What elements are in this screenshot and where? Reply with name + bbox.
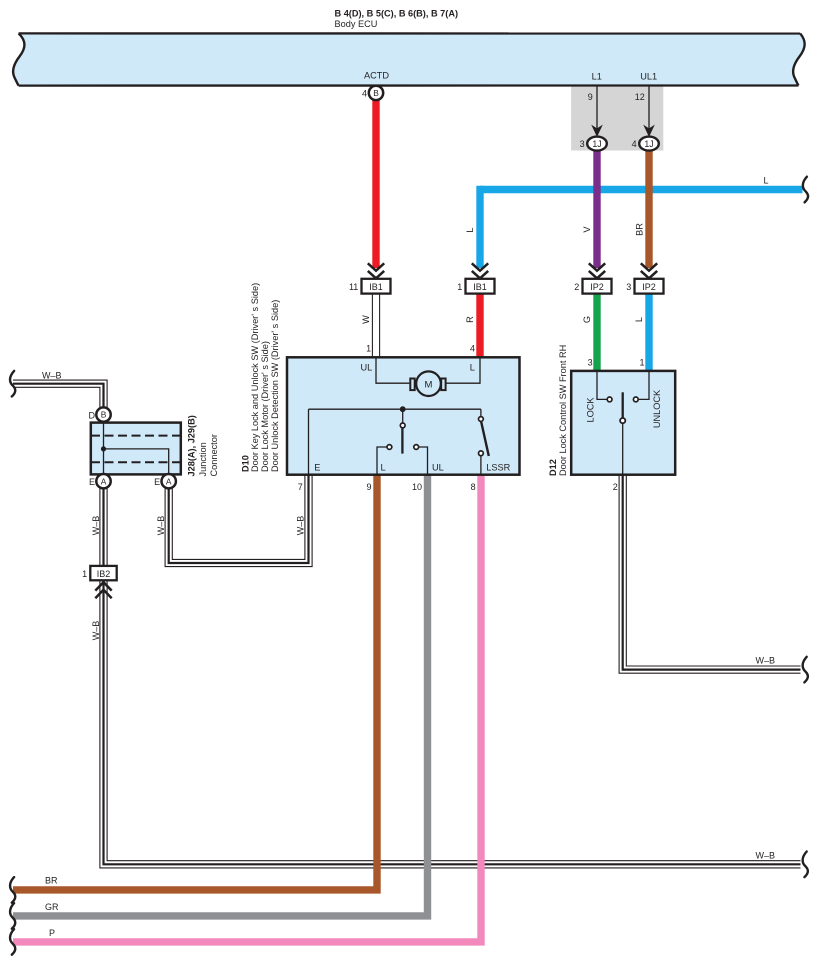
svg-text:1: 1 <box>82 569 87 579</box>
svg-text:Door Unlock Detection SW (Driv: Door Unlock Detection SW (Driver' s Side… <box>270 300 280 472</box>
svg-text:D12: D12 <box>548 459 558 476</box>
svg-text:IB1: IB1 <box>473 282 487 292</box>
svg-text:W–B: W–B <box>91 516 101 536</box>
svg-text:Door Lock Motor (Driver' s Sid: Door Lock Motor (Driver' s Side) <box>260 341 270 472</box>
svg-text:IB2: IB2 <box>97 569 111 579</box>
svg-text:L: L <box>634 317 644 322</box>
svg-text:GR: GR <box>45 902 59 912</box>
svg-text:2: 2 <box>574 282 579 292</box>
svg-text:W–B: W–B <box>42 370 62 380</box>
svg-text:7: 7 <box>298 482 303 492</box>
svg-text:L: L <box>470 363 475 373</box>
svg-text:V: V <box>582 226 592 233</box>
svg-text:BR: BR <box>635 223 645 236</box>
svg-text:L1: L1 <box>592 71 602 81</box>
svg-text:3: 3 <box>626 282 631 292</box>
svg-text:3: 3 <box>580 139 585 149</box>
svg-text:LOCK: LOCK <box>586 397 596 423</box>
svg-text:11: 11 <box>349 282 358 292</box>
svg-text:L: L <box>764 175 769 185</box>
svg-text:D10: D10 <box>240 455 250 472</box>
svg-text:Junction: Junction <box>198 442 208 476</box>
svg-text:Door Lock Control SW Front RH: Door Lock Control SW Front RH <box>558 345 568 476</box>
svg-text:12: 12 <box>635 92 645 102</box>
svg-text:W–B: W–B <box>756 656 776 666</box>
svg-text:UNLOCK: UNLOCK <box>652 389 662 428</box>
svg-text:L: L <box>465 227 475 232</box>
svg-text:2: 2 <box>613 482 618 492</box>
svg-text:3: 3 <box>588 358 593 368</box>
svg-text:A: A <box>166 476 172 486</box>
svg-text:9: 9 <box>588 92 593 102</box>
svg-text:IB1: IB1 <box>369 282 383 292</box>
svg-text:B 4(D), B 5(C), B 6(B), B 7(A): B 4(D), B 5(C), B 6(B), B 7(A) <box>335 9 459 19</box>
svg-text:W–B: W–B <box>156 516 166 536</box>
svg-text:J28(A), J29(B): J28(A), J29(B) <box>187 415 197 476</box>
svg-text:P: P <box>49 928 55 938</box>
svg-text:9: 9 <box>366 482 371 492</box>
svg-text:10: 10 <box>412 482 422 492</box>
svg-text:W–B: W–B <box>756 850 776 860</box>
svg-text:BR: BR <box>45 876 58 886</box>
svg-text:1: 1 <box>366 343 371 353</box>
svg-text:M: M <box>425 380 433 391</box>
svg-text:Connector: Connector <box>209 434 219 476</box>
svg-text:B: B <box>373 88 379 98</box>
svg-text:UL: UL <box>432 462 444 472</box>
svg-text:Body ECU: Body ECU <box>335 19 378 29</box>
svg-text:8: 8 <box>471 482 476 492</box>
svg-text:4: 4 <box>470 343 475 353</box>
svg-text:D: D <box>89 410 96 420</box>
svg-text:ACTD: ACTD <box>364 70 389 80</box>
svg-text:L: L <box>380 462 385 472</box>
svg-text:B: B <box>101 410 107 420</box>
svg-text:4: 4 <box>362 88 367 98</box>
svg-text:E: E <box>89 477 95 487</box>
svg-text:W: W <box>361 315 371 324</box>
svg-text:IP2: IP2 <box>642 282 656 292</box>
svg-text:1J: 1J <box>592 139 601 149</box>
svg-text:UL1: UL1 <box>640 71 657 81</box>
svg-text:W–B: W–B <box>91 621 101 641</box>
svg-text:1: 1 <box>639 358 644 368</box>
svg-text:LSSR: LSSR <box>486 462 510 472</box>
svg-text:A: A <box>101 476 107 486</box>
svg-text:E: E <box>154 477 160 487</box>
svg-text:1: 1 <box>457 282 462 292</box>
svg-text:R: R <box>465 316 475 323</box>
svg-text:UL: UL <box>361 363 373 373</box>
svg-text:G: G <box>582 316 592 323</box>
svg-text:4: 4 <box>632 139 637 149</box>
svg-text:1J: 1J <box>644 139 653 149</box>
svg-text:E: E <box>314 462 320 472</box>
svg-text:IP2: IP2 <box>590 282 604 292</box>
svg-text:W–B: W–B <box>296 516 306 536</box>
svg-text:Door Key Lock and Unlock SW (D: Door Key Lock and Unlock SW (Driver' s S… <box>250 283 260 472</box>
